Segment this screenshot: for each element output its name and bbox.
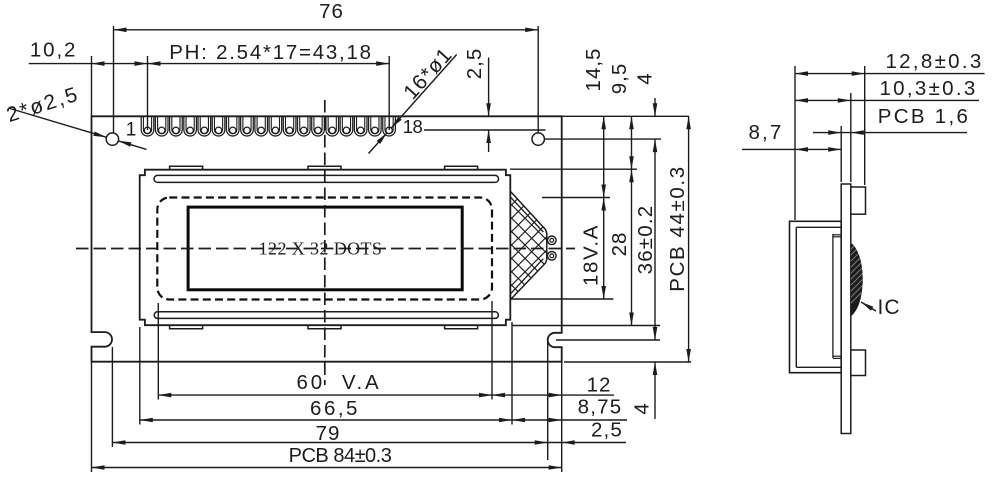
svg-text:8,7: 8,7	[748, 121, 783, 144]
svg-text:10,3±0.3: 10,3±0.3	[879, 77, 977, 100]
svg-text:2*ø2,5: 2*ø2,5	[4, 83, 83, 128]
svg-text:16*ø1: 16*ø1	[399, 43, 457, 104]
svg-text:28: 28	[608, 232, 631, 257]
svg-text:12: 12	[587, 374, 612, 397]
svg-text:18: 18	[403, 116, 423, 137]
svg-text:2,5: 2,5	[463, 48, 486, 80]
svg-text:PCB 44±0.3: PCB 44±0.3	[666, 165, 689, 291]
svg-text:9,5: 9,5	[608, 63, 631, 95]
svg-text:PCB 1,6: PCB 1,6	[878, 105, 970, 128]
svg-text:36±0.2: 36±0.2	[634, 205, 657, 275]
svg-text:8,75: 8,75	[578, 396, 623, 419]
svg-text:4: 4	[634, 72, 657, 84]
svg-text:66,5: 66,5	[310, 397, 360, 420]
svg-text:79: 79	[316, 422, 341, 445]
svg-text:18V.A: 18V.A	[579, 224, 602, 286]
svg-text:4: 4	[631, 402, 654, 414]
svg-text:60 V.A: 60 V.A	[297, 371, 382, 394]
svg-text:PCB 84±0.3: PCB 84±0.3	[289, 445, 392, 467]
svg-text:76: 76	[319, 0, 344, 23]
svg-text:IC: IC	[878, 296, 901, 319]
svg-text:PH: 2.54*17=43,18: PH: 2.54*17=43,18	[169, 41, 373, 64]
svg-text:14,5: 14,5	[582, 48, 605, 92]
svg-text:12,8±0.3: 12,8±0.3	[885, 50, 983, 73]
svg-text:2,5: 2,5	[591, 419, 623, 442]
svg-text:1: 1	[126, 120, 138, 141]
svg-text:10,2: 10,2	[30, 39, 78, 62]
svg-text:122 X 32 DOTS: 122 X 32 DOTS	[259, 238, 383, 258]
